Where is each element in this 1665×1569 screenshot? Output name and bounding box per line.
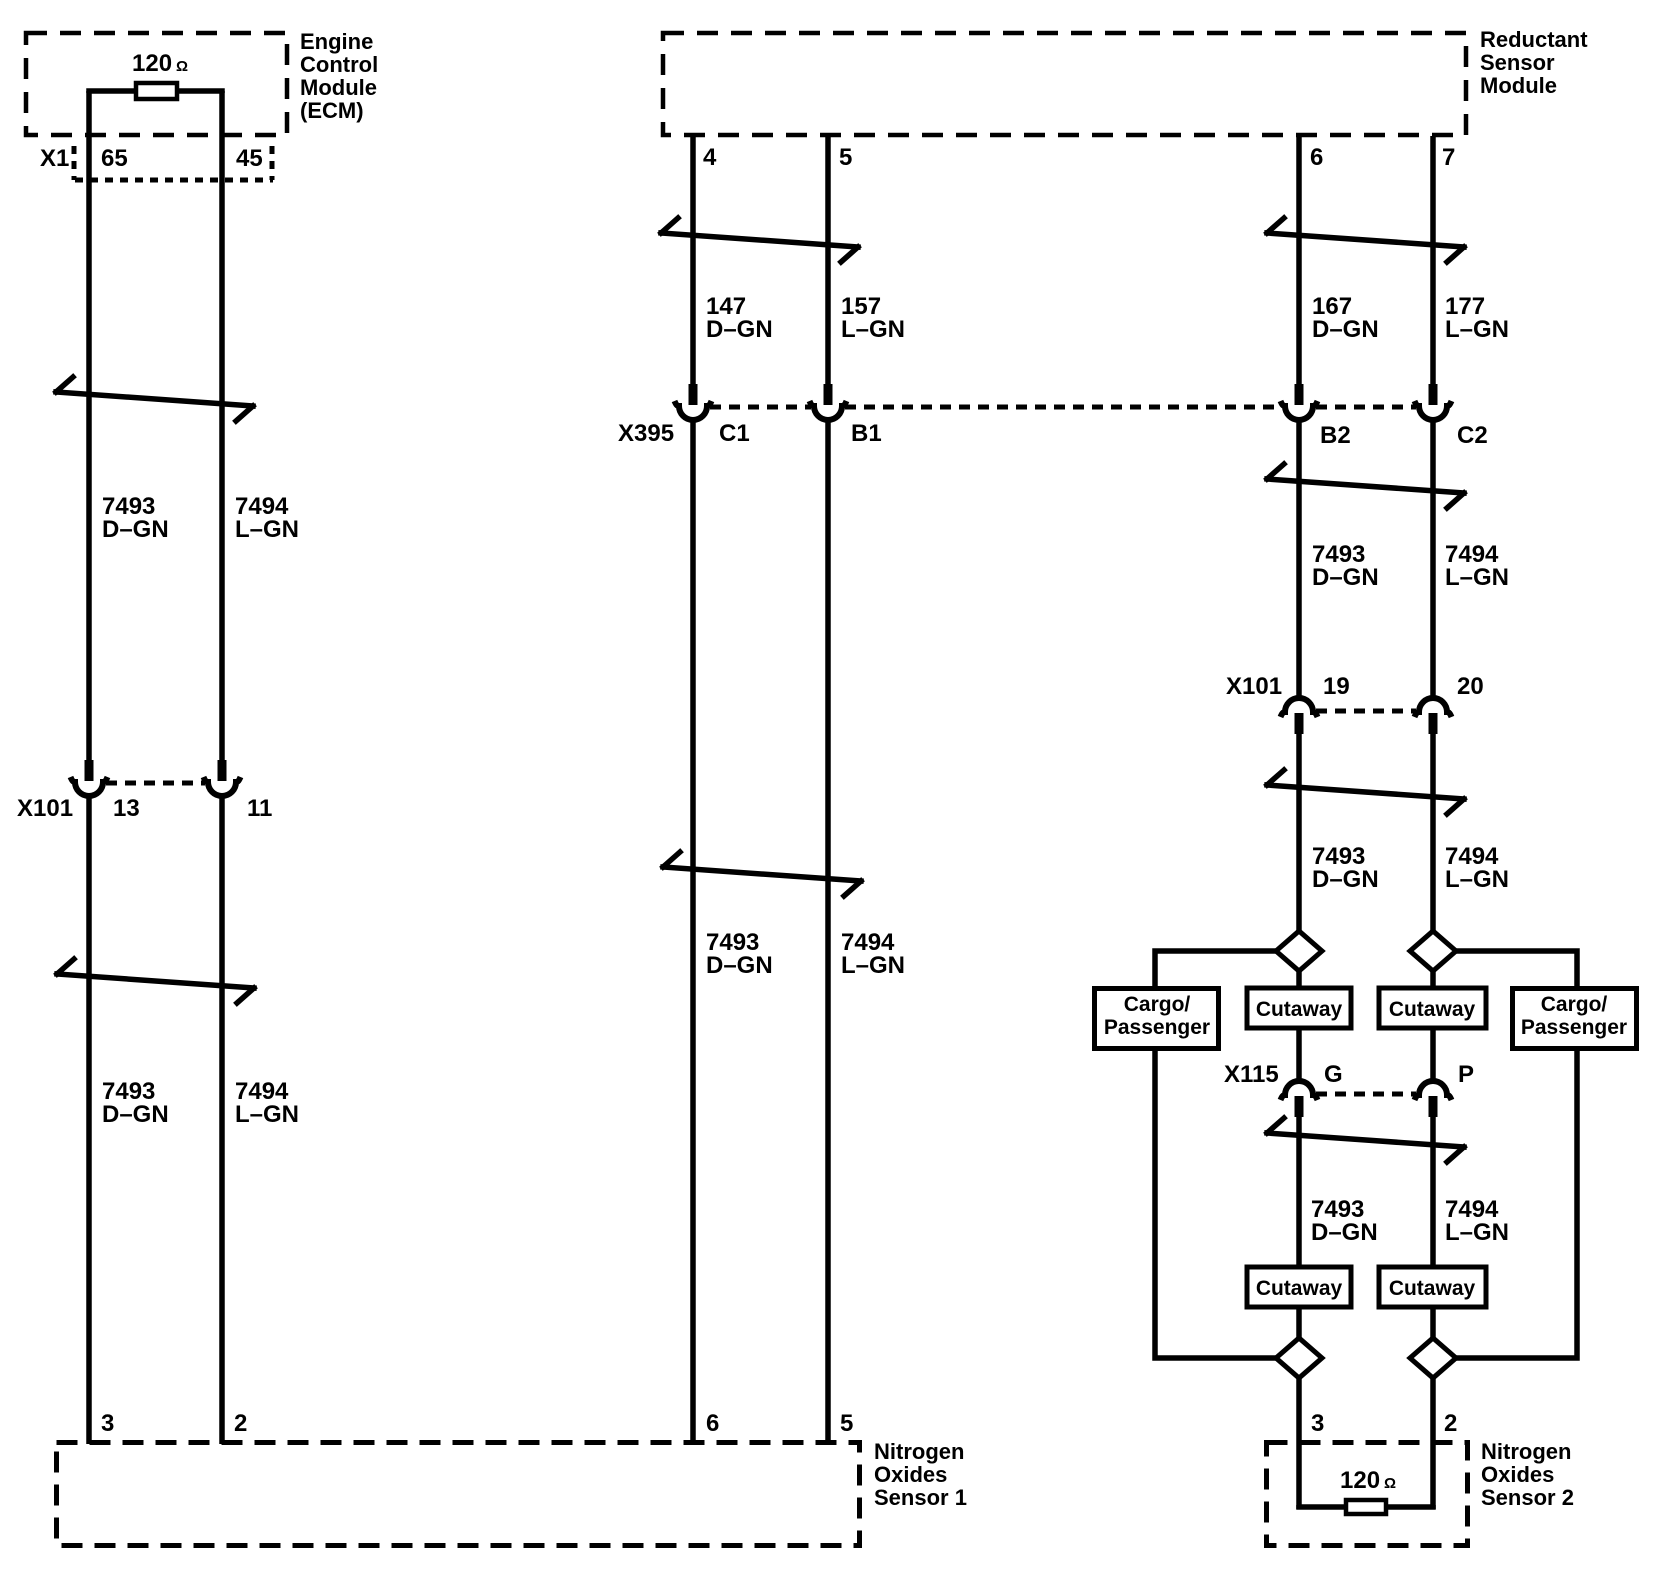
connector X395 female cup B2 bbox=[1285, 406, 1313, 420]
svg-text:Cargo/: Cargo/ bbox=[1124, 993, 1191, 1016]
module Nitrogen Oxides Sensor 2 label bbox=[1481, 1439, 1574, 1510]
svg-text:2: 2 bbox=[1444, 1410, 1457, 1437]
svg-text:D–GN: D–GN bbox=[1311, 1219, 1378, 1246]
svg-text:X1: X1 bbox=[40, 145, 69, 172]
svg-text:D–GN: D–GN bbox=[102, 516, 169, 543]
wire 7493 D-GN from X395 pin C1 to NOx sensor 1 pin 6 bbox=[690, 420, 696, 1444]
connector X101 (left) female cup 11 bbox=[208, 782, 236, 796]
svg-text:D–GN: D–GN bbox=[1312, 564, 1379, 591]
connector X115 male pin G bbox=[1295, 1096, 1304, 1117]
svg-text:Sensor 2: Sensor 2 bbox=[1481, 1485, 1574, 1510]
connector X395 dashed link line bbox=[710, 405, 1416, 410]
splice diamond (7493, upper) bbox=[1276, 931, 1322, 971]
svg-text:G: G bbox=[1324, 1061, 1343, 1088]
svg-text:Nitrogen: Nitrogen bbox=[1481, 1439, 1571, 1464]
module Nitrogen Oxides Sensor 2 dashed box bbox=[1267, 1443, 1468, 1546]
connector X101 (right) female cup 20 bbox=[1419, 698, 1447, 712]
wire 7494 L-GN from X101 pin 20 to splice diamond bbox=[1430, 731, 1436, 933]
option box Cutaway (lower left) bbox=[1247, 1267, 1351, 1307]
wire 167 D-GN from Reductant module pin 6 to X395 pin B2 bbox=[1296, 136, 1302, 386]
connector X101 (left) female cup 13 bbox=[75, 782, 103, 796]
wire 177 L-GN from Reductant module pin 7 to X395 pin C2 bbox=[1430, 136, 1436, 386]
svg-text:Engine: Engine bbox=[300, 29, 373, 54]
svg-text:B1: B1 bbox=[851, 420, 882, 447]
svg-text:X101: X101 bbox=[17, 795, 73, 822]
svg-text:D–GN: D–GN bbox=[102, 1101, 169, 1128]
connector X115 female cup G bbox=[1285, 1081, 1313, 1095]
wire from lower diamond to NOx sensor 2 pin 3 bbox=[1296, 1376, 1302, 1509]
wire from lower diamond to NOx sensor 2 pin 2 bbox=[1430, 1376, 1436, 1509]
wire Cutaway (lower right) to splice diamond bbox=[1430, 1305, 1436, 1340]
option box Cargo/Passenger (right) bbox=[1513, 989, 1637, 1049]
wire 7494 L-GN from X115 pin P to Cutaway (lower right) bbox=[1430, 1114, 1436, 1267]
svg-text:3: 3 bbox=[101, 1410, 114, 1437]
svg-text:(ECM): (ECM) bbox=[300, 98, 364, 123]
svg-text:Sensor: Sensor bbox=[1480, 50, 1555, 75]
connector X1 (ECM harness connector) dashed outline bbox=[74, 146, 272, 180]
module ECM (Engine Control Module) dashed box bbox=[26, 33, 287, 135]
svg-text:Sensor 1: Sensor 1 bbox=[874, 1485, 967, 1510]
wire 7494 L-GN from X101 pin 11 to NOx sensor 1 pin 2 bbox=[219, 796, 225, 1444]
svg-text:D–GN: D–GN bbox=[1312, 866, 1379, 893]
wire 157 L-GN from Reductant module pin 5 to X395 pin B1 bbox=[825, 136, 831, 386]
svg-text:13: 13 bbox=[113, 795, 140, 822]
svg-text:4: 4 bbox=[703, 144, 717, 171]
splice diamond (7494, lower) bbox=[1410, 1338, 1456, 1378]
svg-text:C2: C2 bbox=[1457, 422, 1488, 449]
wire 7493 D-GN from X101 pin 19 to splice diamond bbox=[1296, 731, 1302, 933]
connector X101 (right) dashed link bbox=[1316, 709, 1416, 714]
svg-text:Module: Module bbox=[1480, 73, 1557, 98]
option box Cutaway (lower right) bbox=[1379, 1267, 1486, 1307]
wire from left diamond down to Cutaway (left) bbox=[1296, 969, 1302, 989]
module Nitrogen Oxides Sensor 1 dashed box bbox=[57, 1443, 860, 1546]
connector X101 (right) male pin 20 bbox=[1429, 713, 1438, 734]
connector X395 male pin C1 bbox=[689, 384, 698, 405]
svg-text:L–GN: L–GN bbox=[1445, 1219, 1509, 1246]
svg-text:L–GN: L–GN bbox=[1445, 316, 1509, 343]
svg-text:Passenger: Passenger bbox=[1104, 1016, 1210, 1039]
svg-text:19: 19 bbox=[1323, 673, 1350, 700]
off-page arrow (right pair, below X395) bbox=[1267, 464, 1464, 508]
svg-text:X395: X395 bbox=[618, 420, 674, 447]
module Reductant Sensor Module dashed box bbox=[663, 33, 1466, 135]
module ECM label bbox=[300, 29, 378, 123]
wire 7493 D-GN from X395 pin B2 to X101 pin 19 bbox=[1296, 420, 1302, 698]
wire 7493 D-GN from X101 pin 13 to NOx sensor 1 pin 3 bbox=[86, 796, 92, 1444]
wire from right diamond down to Cutaway (right) bbox=[1430, 969, 1436, 989]
wire Cargo/Passenger (right) down to lower splice bbox=[1455, 1048, 1577, 1358]
off-page arrow (left pair lower) bbox=[57, 959, 254, 1003]
svg-text:Cutaway: Cutaway bbox=[1256, 1277, 1343, 1300]
svg-text:5: 5 bbox=[840, 1410, 853, 1437]
connector X395 male pin B2 bbox=[1295, 384, 1304, 405]
connector X101 (left) male pin 13 bbox=[85, 760, 94, 781]
wire 7494 L-GN from ECM pin 45 to connector X101 pin 11 bbox=[219, 91, 225, 762]
svg-text:D–GN: D–GN bbox=[1312, 316, 1379, 343]
connector X115 dashed link bbox=[1316, 1092, 1416, 1097]
connector X101 (left) male pin 11 bbox=[218, 760, 227, 781]
wire 147 D-GN from Reductant module pin 4 to X395 pin C1 bbox=[690, 136, 696, 386]
svg-text:6: 6 bbox=[706, 1410, 719, 1437]
wire Cargo/Passenger (left) down to lower splice bbox=[1155, 1048, 1277, 1358]
module Reductant Sensor Module label bbox=[1480, 27, 1588, 98]
off-page arrow (right pair, below X101) bbox=[1267, 770, 1464, 814]
wire 7493 D-GN from X115 pin G to Cutaway (lower left) bbox=[1296, 1114, 1302, 1267]
off-page arrow (left pair upper) bbox=[56, 377, 253, 421]
option box Cutaway (upper right) bbox=[1379, 988, 1486, 1028]
wire ECM internal terminating resistor loop bbox=[89, 91, 222, 93]
svg-text:Cutaway: Cutaway bbox=[1256, 998, 1343, 1021]
svg-text:65: 65 bbox=[101, 145, 128, 172]
svg-text:L–GN: L–GN bbox=[235, 1101, 299, 1128]
svg-text:Cutaway: Cutaway bbox=[1389, 998, 1476, 1021]
wire from Cutaway (left) to X115 pin G bbox=[1296, 1028, 1302, 1081]
connector X395 female cup B1 bbox=[814, 406, 842, 420]
svg-text:3: 3 bbox=[1311, 1410, 1324, 1437]
wire 7494 L-GN from X395 pin B1 to NOx sensor 1 pin 5 bbox=[825, 420, 831, 1444]
connector X101 (right) male pin 19 bbox=[1295, 713, 1304, 734]
module Nitrogen Oxides Sensor 1 label bbox=[874, 1439, 967, 1510]
wire 7493 D-GN from ECM pin 65 to connector X101 pin 13 bbox=[86, 91, 92, 762]
svg-text:Reductant: Reductant bbox=[1480, 27, 1588, 52]
resistor 120 ohm (inside ECM) bbox=[136, 83, 177, 99]
svg-text:P: P bbox=[1458, 1061, 1474, 1088]
svg-text:B2: B2 bbox=[1320, 422, 1351, 449]
wire 7494 L-GN from X395 pin C2 to X101 pin 20 bbox=[1430, 420, 1436, 698]
svg-text:C1: C1 bbox=[719, 420, 750, 447]
resistor 120 ohm (inside NOx sensor 2) bbox=[1346, 1500, 1386, 1514]
svg-text:Cargo/: Cargo/ bbox=[1541, 993, 1608, 1016]
svg-text:D–GN: D–GN bbox=[706, 952, 773, 979]
svg-text:45: 45 bbox=[236, 145, 263, 172]
connector X395 female cup C1 bbox=[679, 406, 707, 420]
connector X101 (right) female cup 19 bbox=[1285, 698, 1313, 712]
splice diamond (7494, upper) bbox=[1410, 931, 1456, 971]
svg-text:Cutaway: Cutaway bbox=[1389, 1277, 1476, 1300]
off-page arrow (right pair, below X115) bbox=[1267, 1118, 1464, 1162]
svg-text:20: 20 bbox=[1457, 673, 1484, 700]
splice diamond (7493, lower) bbox=[1276, 1338, 1322, 1378]
off-page arrow (middle pair lower) bbox=[663, 852, 861, 896]
svg-text:L–GN: L–GN bbox=[841, 952, 905, 979]
wire NOx sensor 2 internal resistor loop bbox=[1299, 1505, 1433, 1507]
svg-text:2: 2 bbox=[234, 1410, 247, 1437]
svg-text:D–GN: D–GN bbox=[706, 316, 773, 343]
svg-text:Oxides: Oxides bbox=[1481, 1462, 1554, 1487]
connector X115 male pin P bbox=[1429, 1096, 1438, 1117]
svg-text:Nitrogen: Nitrogen bbox=[874, 1439, 964, 1464]
wire branch from left diamond to Cargo/Passenger (left) bbox=[1155, 951, 1276, 989]
wire branch from right diamond to Cargo/Passenger (right) bbox=[1456, 951, 1577, 989]
svg-text:X115: X115 bbox=[1224, 1061, 1279, 1088]
connector X395 male pin B1 bbox=[824, 384, 833, 405]
connector X101 (left) dashed link bbox=[106, 781, 205, 786]
svg-text:L–GN: L–GN bbox=[1445, 866, 1509, 893]
svg-text:Oxides: Oxides bbox=[874, 1462, 947, 1487]
wire Cutaway (lower left) to splice diamond bbox=[1296, 1305, 1302, 1340]
connector X395 male pin C2 bbox=[1429, 384, 1438, 405]
svg-text:L–GN: L–GN bbox=[841, 316, 905, 343]
svg-text:L–GN: L–GN bbox=[235, 516, 299, 543]
svg-text:L–GN: L–GN bbox=[1445, 564, 1509, 591]
svg-text:11: 11 bbox=[247, 795, 272, 822]
wire from Cutaway (right) to X115 pin P bbox=[1430, 1028, 1436, 1081]
off-page arrow (middle pair upper) bbox=[661, 218, 858, 262]
svg-text:Control: Control bbox=[300, 52, 378, 77]
svg-text:Passenger: Passenger bbox=[1521, 1016, 1627, 1039]
off-page arrow (right pair upper) bbox=[1267, 218, 1464, 262]
svg-text:5: 5 bbox=[839, 144, 852, 171]
svg-text:7: 7 bbox=[1442, 144, 1455, 171]
svg-text:X101: X101 bbox=[1226, 673, 1282, 700]
option box Cutaway (upper left) bbox=[1247, 988, 1351, 1028]
option box Cargo/Passenger (left) bbox=[1095, 989, 1219, 1049]
connector X115 female cup P bbox=[1419, 1081, 1447, 1095]
svg-text:6: 6 bbox=[1310, 144, 1323, 171]
svg-text:Module: Module bbox=[300, 75, 377, 100]
connector X395 female cup C2 bbox=[1419, 406, 1447, 420]
